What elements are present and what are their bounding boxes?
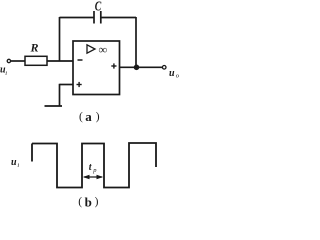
svg-text:i: i (5, 70, 7, 77)
label (a) (79, 109, 100, 124)
svg-text:i: i (17, 162, 19, 169)
svg-text:(: ( (79, 111, 83, 123)
output terminal (162, 66, 166, 70)
op-amp triangle symbol (87, 45, 95, 53)
wire resistor to op-amp inverting input (47, 60, 73, 62)
svg-text:b: b (85, 195, 92, 210)
node junction dot (134, 65, 140, 71)
wire non-inverting input (60, 84, 74, 86)
svg-text:): ) (96, 111, 100, 123)
dimension arrow t_p double-headed (83, 175, 103, 180)
waveform square wave u_i (32, 143, 156, 188)
op-amp U1 box (73, 41, 120, 95)
op-amp non-inverting input plus sign (77, 82, 82, 87)
svg-text:R: R (30, 41, 39, 55)
op-amp inverting input minus sign (78, 59, 83, 61)
resistor R body (25, 56, 47, 65)
wire feedback left vertical (59, 17, 61, 61)
wire output (120, 66, 163, 68)
wire to ground (59, 84, 61, 106)
svg-text:p: p (92, 167, 97, 174)
capacitor C plates (94, 11, 101, 24)
wire top feedback left segment (60, 17, 94, 19)
svg-text:u: u (11, 157, 17, 168)
wire feedback right vertical (135, 17, 137, 67)
op-amp output plus sign (111, 63, 116, 68)
ground (45, 105, 63, 107)
svg-text:u: u (169, 68, 175, 79)
label t_p (89, 162, 97, 174)
label u_i waveform (11, 157, 19, 169)
label (b) (78, 195, 98, 210)
wire input to resistor (11, 60, 25, 62)
svg-text:): ) (95, 196, 99, 208)
label u_o output (169, 68, 180, 80)
label u_i input (0, 65, 7, 78)
svg-text:∞: ∞ (99, 43, 108, 57)
input terminal (7, 59, 10, 62)
svg-text:(: ( (78, 196, 82, 208)
svg-text:a: a (85, 109, 92, 124)
wire top feedback right segment (101, 17, 136, 19)
